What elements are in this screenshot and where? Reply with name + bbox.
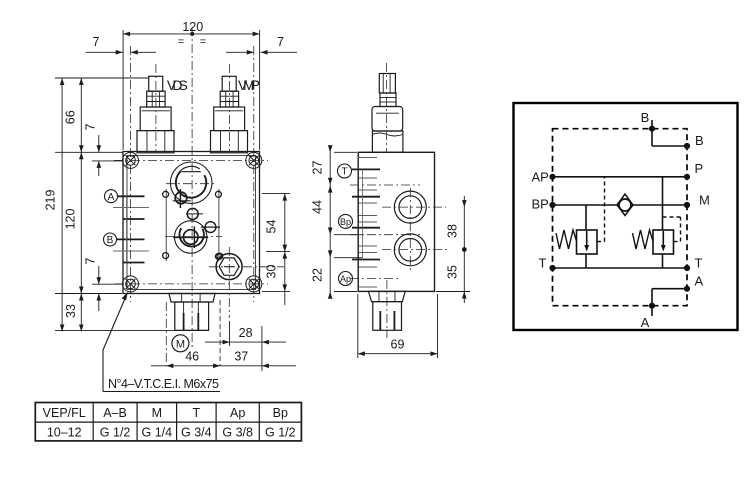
svg-text:G 3/8: G 3/8 bbox=[222, 425, 253, 439]
svg-text:N°4–V.T.C.E.I. M6x75: N°4–V.T.C.E.I. M6x75 bbox=[108, 377, 219, 391]
svg-text:B: B bbox=[695, 133, 704, 148]
svg-text:VMP: VMP bbox=[238, 77, 260, 93]
svg-text:Bp: Bp bbox=[340, 217, 351, 227]
svg-text:22: 22 bbox=[311, 268, 325, 282]
svg-text:T: T bbox=[341, 167, 347, 178]
svg-text:G 1/4: G 1/4 bbox=[142, 425, 173, 439]
svg-text:=: = bbox=[178, 36, 184, 48]
svg-text:T: T bbox=[192, 406, 200, 420]
svg-text:69: 69 bbox=[391, 338, 405, 352]
svg-text:P: P bbox=[695, 161, 704, 176]
svg-text:Ap: Ap bbox=[340, 274, 351, 284]
svg-text:37: 37 bbox=[234, 350, 248, 364]
svg-text:B: B bbox=[107, 235, 114, 246]
svg-text:28: 28 bbox=[239, 326, 253, 340]
svg-text:G 3/4: G 3/4 bbox=[181, 425, 212, 439]
svg-text:38: 38 bbox=[446, 224, 460, 238]
svg-text:120: 120 bbox=[64, 209, 78, 230]
svg-text:46: 46 bbox=[185, 350, 199, 364]
svg-text:M: M bbox=[176, 338, 185, 350]
svg-text:54: 54 bbox=[265, 220, 279, 234]
svg-text:BP: BP bbox=[531, 197, 548, 212]
svg-text:VDS: VDS bbox=[167, 77, 188, 93]
svg-text:7: 7 bbox=[93, 35, 100, 49]
svg-text:AP: AP bbox=[531, 170, 548, 185]
svg-text:7: 7 bbox=[84, 123, 98, 130]
svg-text:27: 27 bbox=[311, 161, 325, 175]
svg-text:=: = bbox=[200, 36, 206, 48]
svg-text:G 1/2: G 1/2 bbox=[265, 425, 296, 439]
svg-text:44: 44 bbox=[311, 200, 325, 214]
svg-text:35: 35 bbox=[446, 265, 460, 279]
svg-text:M: M bbox=[699, 193, 710, 208]
svg-text:A–B: A–B bbox=[103, 406, 127, 420]
svg-text:30: 30 bbox=[265, 265, 279, 279]
svg-text:A: A bbox=[641, 315, 650, 330]
svg-text:Ap: Ap bbox=[230, 406, 245, 420]
svg-text:10–12: 10–12 bbox=[47, 425, 82, 439]
svg-text:G 1/2: G 1/2 bbox=[100, 425, 131, 439]
svg-text:33: 33 bbox=[64, 304, 78, 318]
svg-text:VEP/FL: VEP/FL bbox=[43, 406, 86, 420]
svg-text:M: M bbox=[152, 406, 162, 420]
svg-text:T: T bbox=[539, 256, 547, 271]
svg-text:7: 7 bbox=[84, 257, 98, 264]
svg-text:A: A bbox=[695, 274, 704, 289]
svg-text:7: 7 bbox=[277, 35, 284, 49]
svg-text:66: 66 bbox=[64, 110, 78, 124]
svg-text:A: A bbox=[108, 192, 115, 203]
svg-text:T: T bbox=[695, 256, 703, 271]
svg-text:B: B bbox=[641, 110, 650, 125]
svg-text:Bp: Bp bbox=[273, 406, 288, 420]
svg-text:219: 219 bbox=[44, 190, 58, 211]
svg-text:120: 120 bbox=[182, 20, 203, 34]
